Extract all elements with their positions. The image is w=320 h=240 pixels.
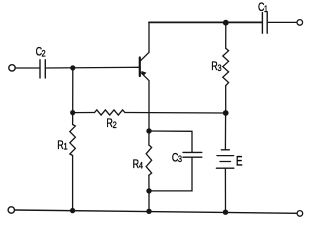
wire supply node to battery [224,113,226,150]
label C1 [258,2,268,14]
svg-text:3: 3 [218,62,222,73]
ground terminal (bottom left) [8,207,14,213]
label R3 [211,61,222,73]
svg-text:1: 1 [264,3,268,14]
node: R4 column on bottom rail [146,209,151,214]
wire R4 bottom to lower junction [148,175,150,191]
resistor R4 [146,145,152,175]
battery E [216,150,233,168]
label R1 [57,140,68,152]
wire C1 to output terminal [268,21,297,23]
svg-text:2: 2 [42,47,46,58]
label E [236,153,243,169]
svg-text:1: 1 [63,141,67,152]
wire C3 top branch [149,131,192,152]
transistor Q1 collector lead [140,22,149,61]
top rail (collector to C1) [149,21,262,23]
wire C3 bottom branch [149,157,192,191]
transistor Q1 base bar [139,58,141,77]
label C2 [36,47,46,59]
svg-text:2: 2 [113,119,117,130]
wire R2 feed (node to zigzag) [73,112,95,114]
resistor R1 [70,125,76,156]
resistor R2 [95,110,125,115]
transistor Q1 emitter lead [140,72,149,131]
svg-text:4: 4 [139,160,143,171]
wire C2 to base [46,66,140,69]
node: collector / R3 junction [223,20,229,26]
node: base/bias junction [70,65,75,70]
node: R4 / C3 bottom junction [146,188,151,193]
node: emitter / R4 / C3 top junction [146,128,151,133]
node: battery on bottom rail [223,210,228,215]
capacitor C3 [183,152,202,157]
resistor R3 [223,48,229,85]
svg-text:3: 3 [178,153,182,164]
wire R3 bottom to supply node [225,86,227,113]
ground terminal (bottom right) [297,211,303,217]
wire junction down left column [72,68,74,113]
wire junction to R4 top [148,131,150,145]
node: R3/R2/battery junction [223,110,229,116]
wire R1 bottom to bottom rail [72,156,74,211]
wire lower junction to bottom rail [148,191,150,211]
wire battery to bottom rail [224,168,226,212]
wire R3 top feed [225,23,227,49]
label R4 [133,159,144,171]
bottom rail [15,210,297,213]
node: R1/R2 junction [70,110,75,115]
output terminal (top right) [297,20,303,26]
label R2 [106,118,117,130]
wire node to R1 top [72,113,74,125]
svg-text:E: E [236,153,243,169]
wire R2 to supply column (crosses emitter line) [125,112,226,115]
capacitor C1 [262,13,267,34]
input terminal (top left) [9,65,15,71]
capacitor C2 [40,60,45,78]
node: R1 on bottom rail [70,208,75,213]
transistor Q1 emitter arrow (PNP, toward base) [141,71,146,76]
wire input terminal to C2 [15,67,39,69]
label C3 [172,152,182,164]
